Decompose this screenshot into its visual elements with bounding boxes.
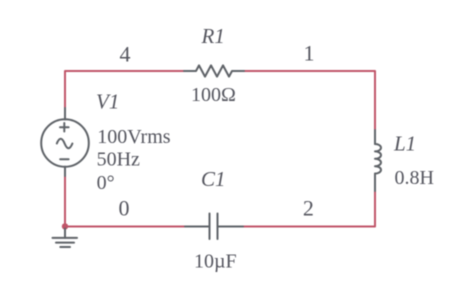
svg-text:1: 1 [304,41,315,66]
svg-text:0°: 0° [97,172,115,194]
node junction dot [62,223,68,229]
svg-text:50Hz: 50Hz [97,148,140,170]
wire bottom-left segment [65,226,185,228]
svg-text:V1: V1 [96,90,119,114]
capacitor C1 [185,214,243,240]
svg-text:R1: R1 [201,24,225,48]
plus sign [60,126,69,128]
wire right-bottom segment [243,191,375,227]
svg-text:0.8H: 0.8H [395,167,434,189]
ground [53,229,78,248]
svg-text:2: 2 [303,196,314,221]
svg-text:100Vrms: 100Vrms [97,126,170,148]
wire top-left segment [65,71,184,108]
svg-text:4: 4 [120,41,131,66]
resistor R1 [184,65,244,76]
svg-text:100Ω: 100Ω [191,84,236,106]
AC source V1 [41,108,89,176]
sine symbol [57,139,73,149]
svg-text:0: 0 [119,196,130,221]
inductor L1 [375,130,381,191]
wire top-right segment [244,71,375,130]
svg-text:10µF: 10µF [194,251,237,273]
svg-text:L1: L1 [393,132,416,156]
wire left-bottom segment [64,176,66,227]
svg-text:C1: C1 [201,167,226,191]
minus sign [60,158,68,160]
